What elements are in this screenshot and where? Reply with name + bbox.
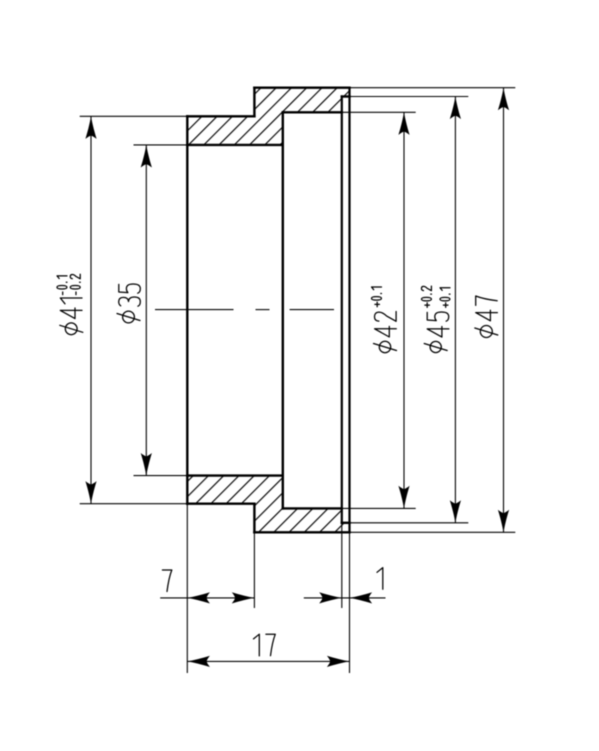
arrow phi41 bottom (85, 481, 96, 504)
extension lines phi35 (134, 144, 188, 146)
centerline dash 1 (155, 309, 234, 311)
arrow dim17 left (187, 656, 210, 667)
outline: right face (348, 88, 350, 533)
centerline dash 3 (290, 309, 334, 311)
extension lines phi45 (350, 96, 469, 98)
dimension line phi45 (454, 97, 456, 523)
extension line flange left down (253, 532, 255, 608)
label phi47 diameter symbol (480, 326, 492, 338)
label phi45 +0.2/+0.1 (421, 286, 450, 337)
hatched section upper half (187, 88, 349, 145)
part outline: left face (186, 116, 188, 503)
arrow phi47 bottom (498, 510, 509, 533)
arrow phi41 top (85, 116, 96, 139)
arrow dim7 right (232, 592, 255, 603)
label phi42 +0.1 (371, 287, 396, 337)
dimension line 7 (160, 597, 254, 599)
label phi35 (119, 284, 141, 306)
outline: bore phi42 bottom (283, 507, 342, 509)
outline: flange OD top (phi47) (254, 86, 349, 88)
outline: flange left face bottom (253, 504, 255, 533)
label phi41 -0.1/-0.2 (57, 274, 82, 318)
dimension line 17 (187, 660, 349, 662)
label 7 (162, 570, 171, 592)
arrow phi35 top (141, 145, 152, 168)
arrow dim17 right (327, 656, 350, 667)
arrow phi45 bottom (450, 500, 461, 523)
extension line left face down (186, 504, 188, 673)
label phi42 diameter symbol (379, 341, 390, 352)
label phi45 diameter symbol (430, 341, 441, 352)
outline: body OD top (phi41) (187, 115, 254, 117)
outline: flange left face top (253, 88, 255, 117)
dimension line 1 (304, 597, 386, 599)
outline: bore phi35 bottom (187, 474, 282, 476)
extension line recess face down (341, 523, 343, 608)
outline: flange OD bottom (phi47) (254, 531, 349, 533)
outline: body OD bottom (phi41) (187, 503, 254, 505)
arrow phi35 bottom (141, 453, 152, 476)
extension line right face down (349, 532, 351, 673)
outline: recess phi45 top (342, 95, 350, 97)
label 1 (377, 568, 383, 590)
arrow dim7 left (187, 592, 210, 603)
extension lines phi42 (342, 111, 416, 113)
outline: bore phi42 top (283, 111, 342, 113)
arrow phi45 top (450, 97, 461, 120)
dimension line phi42 (403, 112, 405, 508)
centerline dash 2 (256, 309, 270, 311)
arrow dim1 left (319, 592, 342, 603)
dimension line phi41 (90, 116, 92, 503)
outline: step face phi35/phi42 (282, 112, 284, 508)
label phi35 diameter symbol (123, 311, 135, 323)
dimension line phi47 (503, 88, 505, 533)
arrow phi42 bottom (398, 486, 409, 509)
arrow phi42 top (398, 112, 409, 135)
label phi47 (476, 296, 498, 321)
hatched section lower half (187, 476, 349, 533)
arrow dim1 right (350, 592, 373, 603)
arrow phi47 top (498, 88, 509, 111)
label phi41 diameter symbol (65, 323, 77, 335)
extension lines phi41 (80, 115, 188, 117)
outline: recess face phi45 (341, 97, 343, 523)
dimension line phi35 (145, 145, 147, 476)
label 17 (254, 634, 260, 656)
outline: bore phi35 top (187, 144, 282, 146)
outline: recess phi45 bottom (342, 522, 350, 524)
extension lines phi47 (350, 87, 516, 89)
